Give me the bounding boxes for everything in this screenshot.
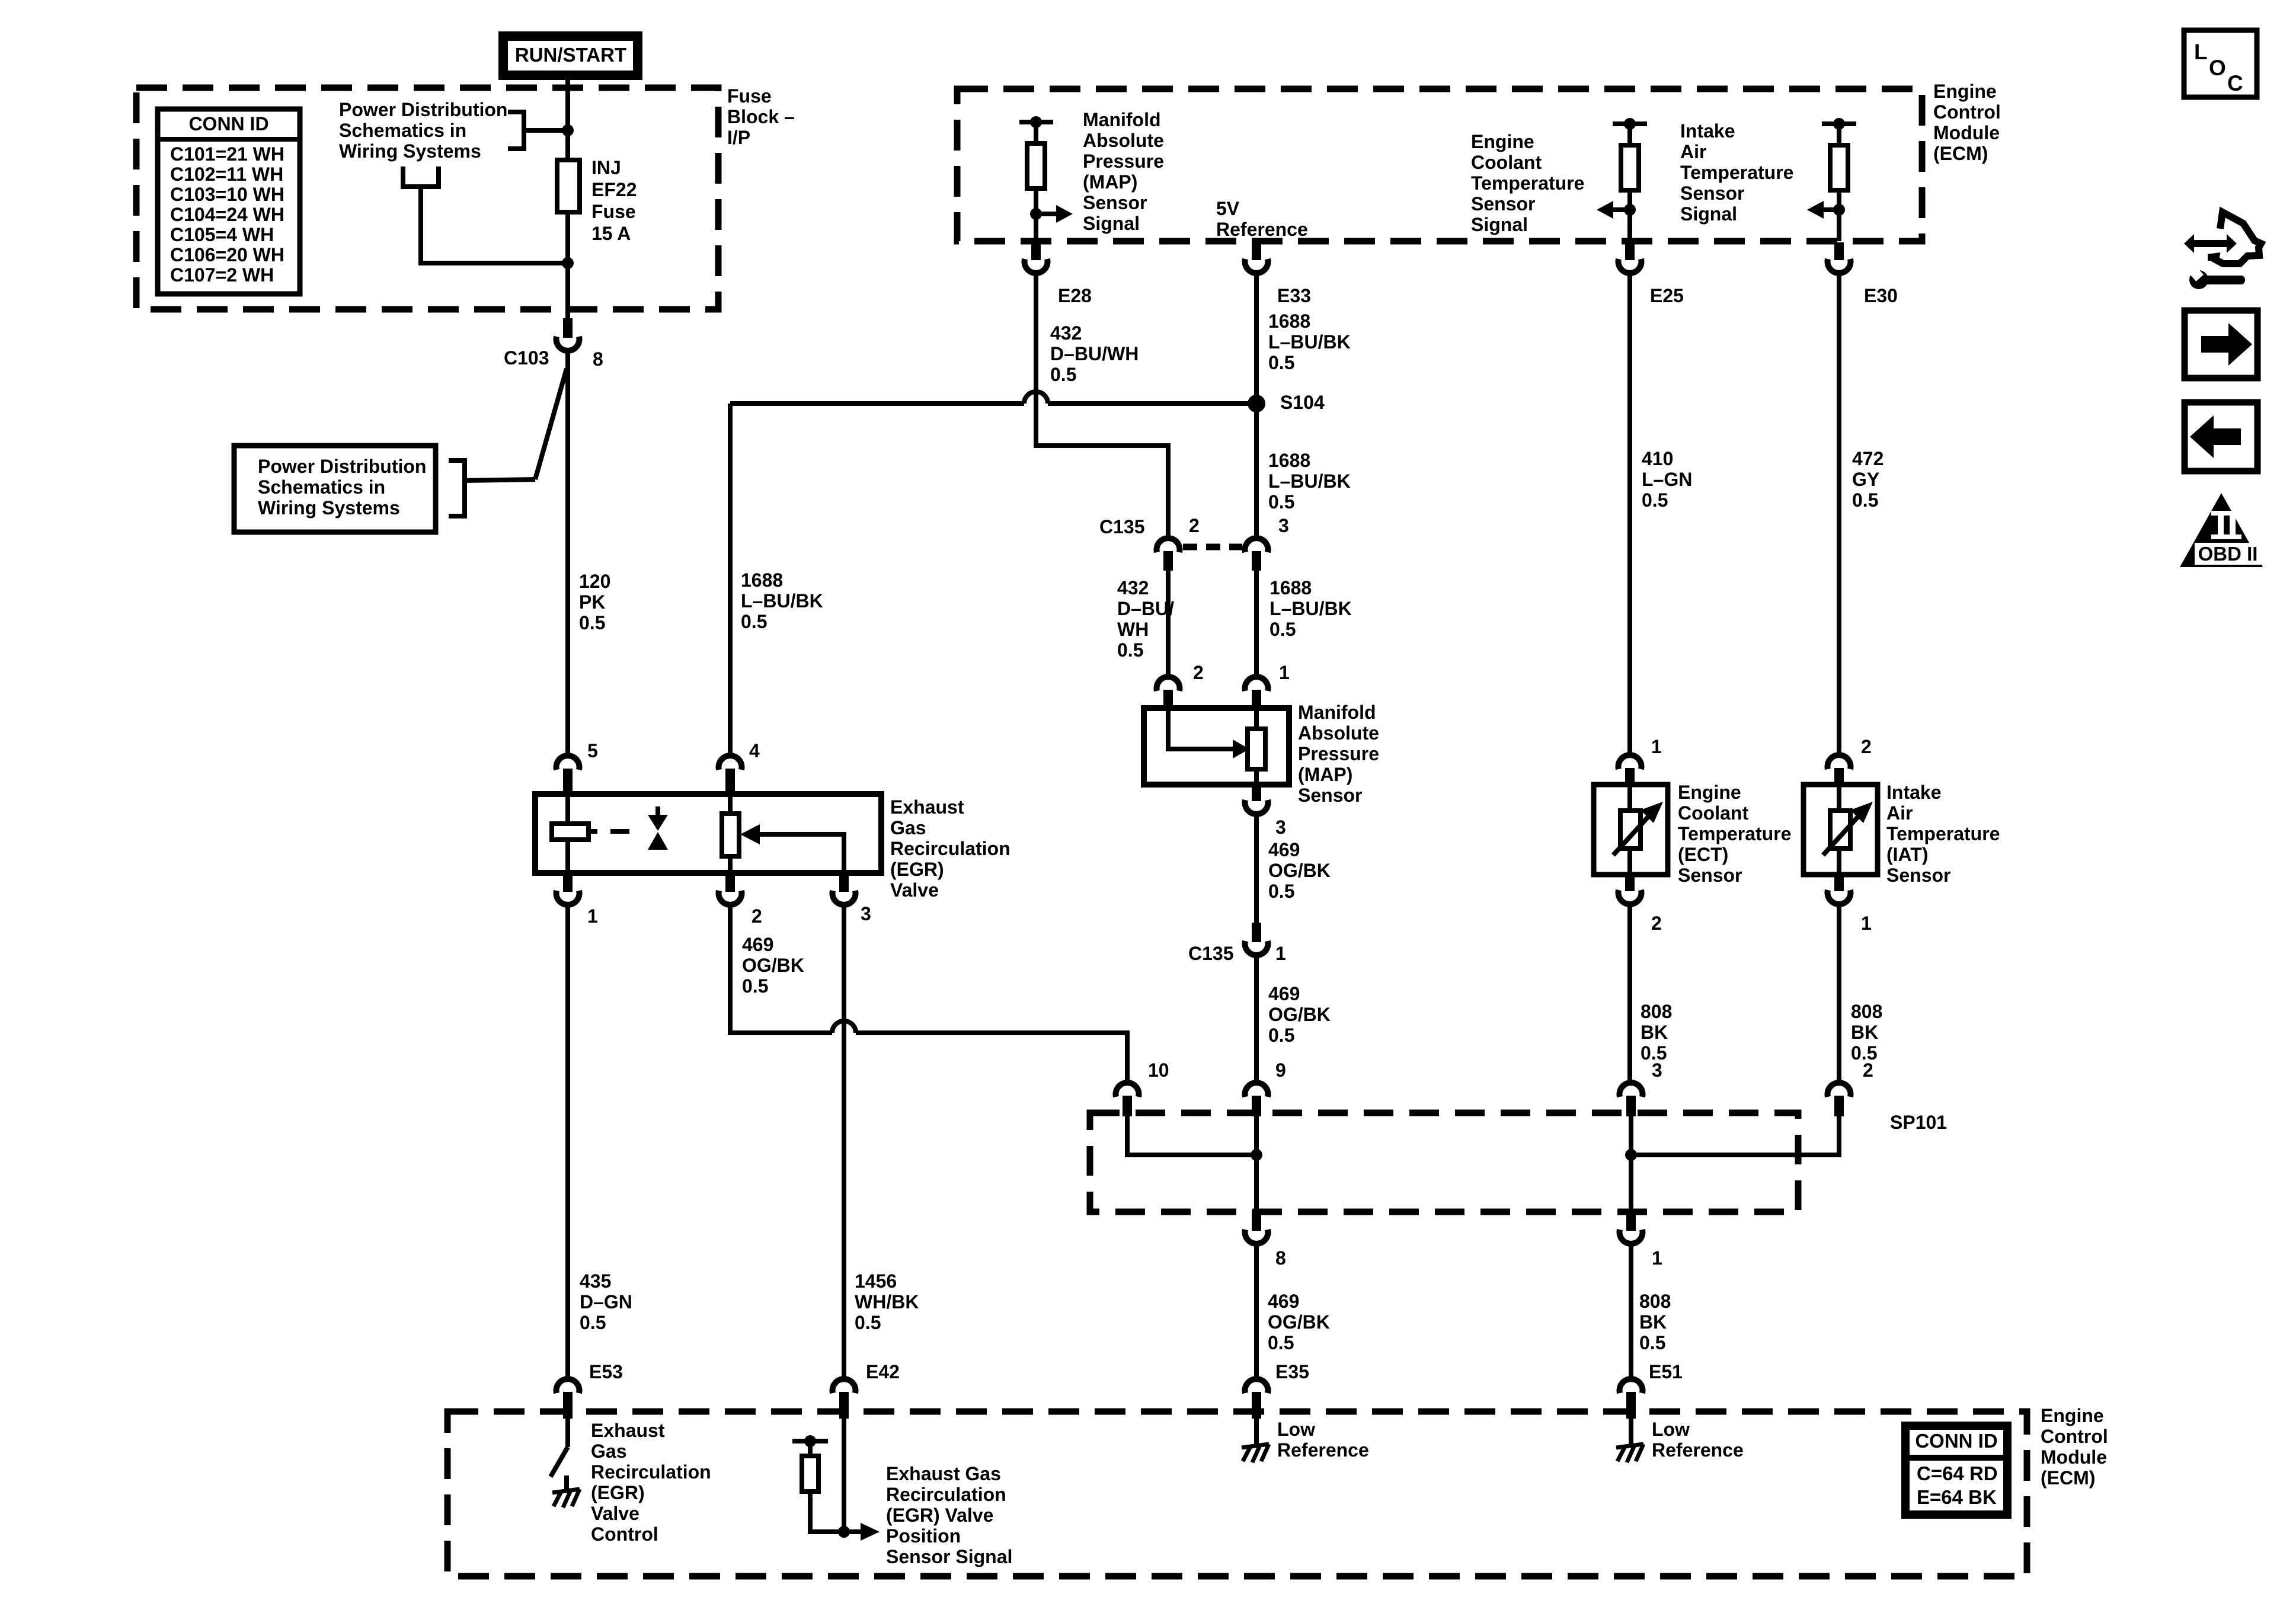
wire ECT internal bottom [1627,190,1632,241]
svg-text:OBD II: OBD II [2198,543,2258,565]
SP101 internal wire pin3 to pin1 [1629,1116,1633,1210]
EGR solenoid coil [552,824,589,840]
svg-text:C103: C103 [504,347,549,369]
svg-text:E35: E35 [1275,1361,1309,1382]
svg-text:3: 3 [861,903,871,924]
callout bracket 3 [449,460,465,516]
ECT thermistor arrow [1641,802,1663,823]
wire E53 internal [565,1419,570,1447]
callout bracket 1 [508,112,524,149]
node E42 resistor top [804,1435,816,1447]
RUN/START hot-in-run box [503,36,638,75]
SP101 pin 10 stub [1123,1096,1132,1116]
SP101 pin 1 stub [1626,1210,1636,1231]
MAP signal internal circuit [1019,120,1053,124]
CONN ID table (ECM) [1905,1426,2007,1515]
svg-text:E51: E51 [1649,1361,1683,1382]
connector E25 arc [1619,259,1642,273]
connector E28 stub [1031,242,1041,260]
EGR pot wire [728,794,733,873]
MAP sensor box [1144,708,1289,785]
wire MAP internal top [1034,122,1038,143]
connector E35 arc [1245,1379,1268,1393]
wire MAP internal bottom [1034,188,1038,241]
IAT element wire [1837,785,1841,875]
connector E53 stub [563,1392,573,1419]
ECT pin 1 stub [1625,768,1635,785]
wire C135-2 to MAP pin 2 [1166,571,1171,675]
wire SP101 pin1 to E51 [1629,1246,1633,1377]
IAT signal arrow [1807,201,1824,219]
MAP potentiometer [1248,729,1265,769]
EGR solenoid wire [565,794,570,873]
SP101 internal wire pin9 to pin8 [1254,1116,1259,1210]
connector SP101 pin 3 arc [1620,1083,1643,1097]
svg-text:C135: C135 [1188,943,1234,964]
OBD II icon [2180,493,2263,567]
svg-text:1: 1 [1279,662,1290,683]
MAP wiper arrow [1233,740,1249,758]
connector E28 arc [1025,259,1048,273]
connector EGR pin 4 arc [719,756,742,770]
node bar E42 resistor top [792,1439,828,1443]
connector C103 female arc [557,337,580,351]
connector E33 arc [1245,259,1268,273]
svg-text:3: 3 [1275,817,1286,838]
EGR valve box [535,794,881,873]
wire 410 L-GN [1627,275,1632,753]
IAT pin 1 stub [1834,875,1844,891]
wire bracket1 to main [524,128,568,133]
EGR pot wiper arrow [740,824,760,844]
svg-text:RUN/START: RUN/START [515,44,626,66]
fuse block I/P dashed box [136,88,718,309]
IAT thermistor arrow [1850,802,1873,823]
MAP pin 1 stub [1252,690,1261,708]
svg-text:9: 9 [1275,1060,1286,1081]
SP101 pin 9 stub [1252,1096,1261,1116]
connector E25 stub [1625,242,1635,260]
wire 1688 to EGR pin 4 [728,404,733,754]
wire 1688 L-BU/BK [1254,275,1259,536]
SP101 junction dot left [1251,1149,1262,1161]
connector E35 stub [1252,1392,1261,1419]
connector E42 arc [833,1379,856,1393]
node IAT signal top [1833,118,1845,130]
svg-text:O: O [2209,56,2226,80]
ECT signal internal circuit [1613,121,1647,126]
EGR pin 4 stub [725,769,735,794]
svg-text:2: 2 [1189,515,1200,536]
node ECT signal junction [1624,204,1636,216]
svg-text:8: 8 [1275,1247,1286,1269]
connector C135 pin 3 arc [1245,538,1268,552]
svg-text:2: 2 [1193,662,1204,683]
svg-text:4: 4 [749,740,760,761]
connector SP101 pin 2 arc [1828,1083,1851,1097]
svg-text:10: 10 [1148,1060,1169,1081]
wire 120 PK [565,353,570,754]
connector E42 stub [839,1392,849,1419]
node E42 junction [838,1526,850,1538]
resistor MAP signal [1027,143,1045,188]
SP101 internal wire pin10 to pin9 [1127,1116,1256,1155]
EGR wiper wire [757,834,844,873]
EGR pin 5 stub [563,769,573,794]
ECT thermistor [1620,811,1641,849]
connector EGR pin 5 arc [557,756,580,770]
svg-text:CONN ID: CONN ID [1915,1430,1997,1452]
svg-text:E42: E42 [866,1361,900,1382]
wire C135-3 to MAP pin 1 [1254,571,1259,675]
EGR mechanical link dashes [589,829,629,834]
connector MAP pin 2 arc [1157,677,1180,691]
wire ECT arrow lead [1613,207,1630,212]
wire SP101 pin8 to E35 [1254,1246,1259,1377]
svg-text:2: 2 [1861,736,1872,757]
ground E35 [1242,1444,1269,1462]
wire IAT arrow lead [1824,207,1839,212]
svg-text:1: 1 [1651,736,1662,757]
svg-text:5: 5 [587,740,598,761]
IAT signal internal circuit [1822,121,1856,126]
svg-text:S104: S104 [1280,392,1325,413]
wire IAT to SP101 pin 2 [1837,906,1841,1081]
svg-text:1: 1 [1861,913,1872,934]
wire hop over pin3 wire [832,1021,856,1033]
svg-text:C: C [2227,71,2243,95]
wire 1456 WH/BK to E42 [842,907,846,1377]
SP101 junction dot right [1625,1149,1637,1161]
MAP pin 2 stub [1163,690,1173,708]
SP101 pin 2 stub [1834,1096,1844,1116]
svg-text:CONN ID: CONN ID [188,113,268,135]
svg-text:E30: E30 [1864,285,1898,306]
ECT signal arrow [1597,201,1613,219]
wire ECT internal top [1627,124,1632,145]
svg-text:E28: E28 [1058,285,1092,306]
C135 connector dashes [1183,544,1242,550]
connector SP101 pin 9 arc [1245,1083,1268,1097]
connector E33 stub [1252,242,1261,260]
EGR position potentiometer [722,814,739,856]
svg-text:2: 2 [1651,913,1662,934]
resistor IAT signal [1830,145,1848,190]
svg-text:1: 1 [1275,943,1286,964]
wire E42 resistor bottom lead [810,1491,861,1532]
service info icon (arrow + outline + wrench) [2184,212,2261,264]
connector E30 stub [1834,242,1844,260]
connector EGR pin 2 arc [719,891,742,905]
svg-text:C135: C135 [1099,516,1145,537]
svg-text:E25: E25 [1650,285,1684,306]
ground E51 [1616,1444,1643,1462]
wire MAP pin3 to C135 pin 1 [1254,816,1259,923]
junction dot lower [562,257,574,269]
connector SP101 pin 1 arc [1620,1230,1643,1244]
svg-text:E53: E53 [589,1361,623,1382]
wire 472 GY [1837,275,1841,753]
node ECT signal top [1624,118,1636,130]
svg-text:C101=21 WHC102=11 WHC103=10 WH: C101=21 WHC102=11 WHC103=10 WHC104=24 WH… [170,143,284,286]
C135 pin 2 stub [1163,551,1173,571]
svg-text:3: 3 [1278,515,1289,536]
ECT element wire [1627,785,1632,875]
connector EGR pin 3 arc [833,891,856,905]
connector E53 arc [557,1379,580,1393]
pointer line to C103 [535,369,567,479]
connector E51 arc [1620,1379,1643,1393]
wire E35 internal [1254,1419,1259,1444]
power distribution schematics box [234,446,436,532]
LOC icon box [2184,30,2257,97]
svg-text:3: 3 [1652,1060,1662,1081]
wire bracket2 to main [421,187,568,263]
forward arrow icon [2185,311,2257,378]
MAP internal element wire [1254,708,1259,785]
wire S104 to EGR pin 4 branch [730,401,1256,406]
wire bracket3 lead [465,479,535,481]
SP101 internal wire pin2 to pin3 [1631,1116,1839,1155]
connector SP101 pin 10 arc [1116,1083,1139,1097]
svg-text:Exhaust GasRecirculation(EGR): Exhaust GasRecirculation(EGR) ValvePosit… [886,1463,1012,1567]
wire 469 OG/BK EGR pin2 to SP101 pin 10 [730,907,1127,1081]
connector IAT pin 2 arc [1828,755,1851,769]
svg-text:SP101: SP101 [1890,1112,1947,1133]
wire E42 internal [842,1419,846,1532]
connector MAP pin 3 arc [1245,800,1268,814]
wire C135-1 to SP101 pin 9 [1254,957,1259,1081]
connector ECT pin 1 arc [1619,755,1642,769]
IAT sensor box [1803,785,1878,875]
node IAT signal junction [1833,204,1845,216]
C135 pin 1 stub [1252,923,1261,942]
SP101 pin 3 stub [1626,1096,1636,1116]
SP101 pin 8 stub [1252,1210,1261,1231]
SP101 splice pack dashed box [1090,1113,1798,1212]
IAT pin 2 stub [1834,768,1844,785]
MAP signal arrow [1056,205,1073,223]
connector E30 arc [1828,259,1851,273]
EGR position signal arrow [861,1523,880,1541]
wire 432 D-BU/WH [1036,275,1168,536]
wire 435 D-GN to E53 [565,907,570,1377]
svg-text:8: 8 [593,348,603,370]
connector C135 pin 1 arc [1245,941,1268,955]
connector ECT pin 2 arc [1619,890,1642,904]
resistor EGR position sense [802,1456,818,1491]
wire E51 internal [1629,1419,1633,1444]
connector E51 stub [1626,1392,1636,1419]
junction dot upper [562,124,574,136]
C135 pin 3 stub [1252,551,1261,571]
splice S104 [1248,395,1265,412]
svg-text:L: L [2194,40,2208,64]
callout bracket 2 [403,167,439,187]
node MAP signal junction [1030,208,1042,220]
ground E53 [552,1489,580,1507]
ECT sensor box [1594,785,1668,875]
svg-text:1: 1 [587,905,598,927]
EGR pin 1 stub [563,873,573,892]
wire hop over 432 wire [1024,392,1048,404]
connector C103 male stub [563,318,573,338]
EGR pin 2 stub [725,873,735,892]
connector MAP pin 1 arc [1245,677,1268,691]
MAP internal wiper wire [1168,708,1233,749]
connector EGR pin 1 arc [557,891,580,905]
svg-text:E33: E33 [1277,285,1311,306]
wire IAT internal bottom [1837,190,1841,241]
wire MAP arrow lead [1036,212,1056,216]
fuse INJ EF22 15A [557,160,580,212]
svg-text:2: 2 [752,905,762,927]
wire IAT internal top [1837,124,1841,145]
engine control module dashed box [957,89,1922,241]
back arrow icon [2185,402,2257,471]
connector C135 pin 2 arc [1157,538,1180,552]
CONN ID table (fuse block) [158,109,300,294]
svg-text:2: 2 [1863,1060,1873,1081]
EGR pin 3 stub [839,873,849,892]
MAP pin 3 stub [1252,785,1261,801]
connector IAT pin 1 arc [1828,890,1851,904]
engine control module dashed box bottom [447,1411,2027,1576]
ECT pin 2 stub [1625,875,1635,891]
wire E42 resistor top lead [808,1441,813,1456]
wire RUN/START to C103 [565,77,570,319]
EGR valve control switch [551,1447,568,1477]
svg-text:1: 1 [1652,1247,1662,1269]
IAT thermistor [1830,811,1850,849]
EGR valve symbol [655,806,660,816]
resistor ECT signal [1621,145,1639,190]
wire ECT to SP101 pin 3 [1627,906,1632,1081]
connector SP101 pin 8 arc [1245,1230,1268,1244]
node MAP signal top [1030,116,1042,128]
